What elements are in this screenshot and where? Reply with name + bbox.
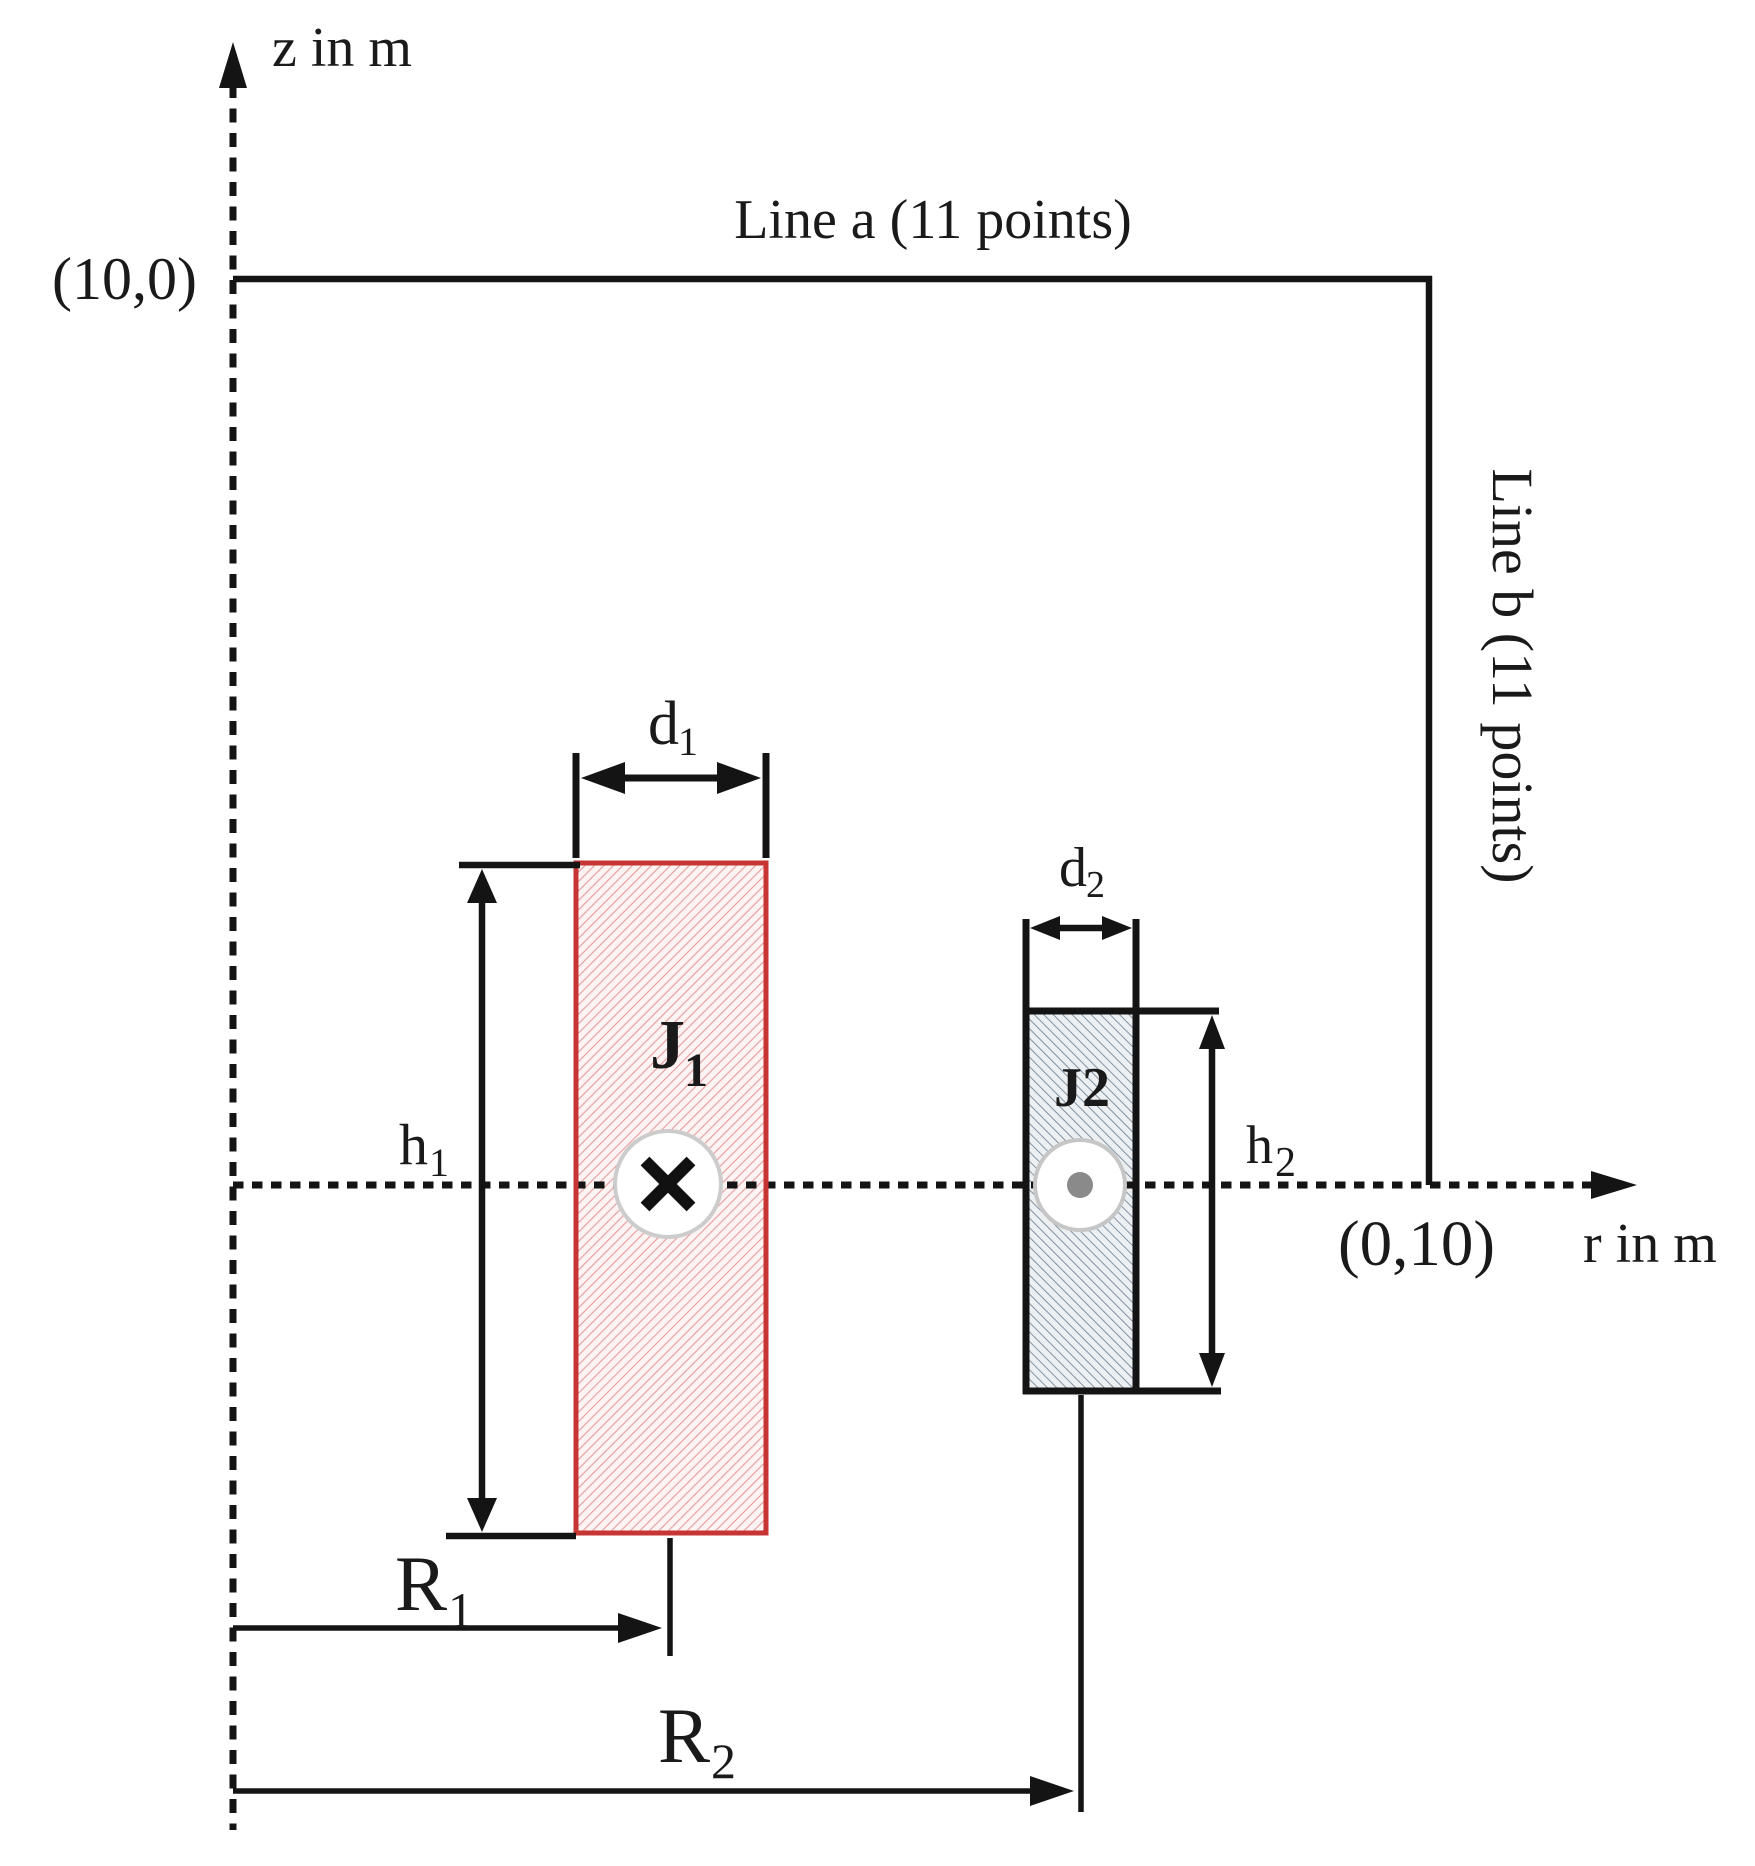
- svg-text:1: 1: [429, 1140, 449, 1185]
- svg-text:J: J: [650, 1007, 685, 1084]
- J2 current symbol (dot in circle): [1035, 1140, 1125, 1230]
- z axis dashed line: [230, 84, 237, 1830]
- J2 left border: [1023, 919, 1030, 1394]
- R1 dimension line with arrow: [233, 1625, 628, 1631]
- svg-text:d: d: [648, 690, 679, 758]
- svg-text:2: 2: [711, 1733, 736, 1789]
- svg-text:r in m: r in m: [1583, 1213, 1717, 1275]
- Line b: [1426, 276, 1433, 1185]
- h2 dimension arrow: [1209, 1040, 1216, 1362]
- svg-text:R: R: [395, 1540, 447, 1627]
- r axis dashed line: [233, 1182, 1592, 1189]
- J1 current symbol (cross in circle): [615, 1131, 721, 1237]
- svg-text:z in m: z in m: [272, 17, 412, 79]
- R2 dimension line with arrow: [233, 1788, 1040, 1794]
- svg-text:(10,0): (10,0): [52, 246, 197, 312]
- J2 hatch fill: [1030, 1014, 1133, 1388]
- Line a: [233, 276, 1432, 283]
- svg-text:1: 1: [448, 1582, 473, 1638]
- d1 left extension line: [573, 753, 580, 858]
- R2 extension line: [1078, 1395, 1084, 1812]
- svg-text:2: 2: [1275, 1140, 1296, 1186]
- h1 top bar: [459, 862, 580, 869]
- d1 right extension line: [763, 753, 770, 858]
- d2 dimension arrow: [1055, 925, 1107, 932]
- J2 / h2 bottom bar: [1023, 1388, 1221, 1395]
- svg-text:(0,10): (0,10): [1338, 1208, 1495, 1280]
- svg-text:d: d: [1059, 837, 1087, 899]
- h2 top bar: [1026, 1008, 1219, 1015]
- svg-text:1: 1: [684, 1044, 708, 1097]
- svg-text:2: 2: [1086, 864, 1105, 906]
- R1 extension line: [667, 1538, 673, 1656]
- svg-text:h: h: [399, 1112, 428, 1177]
- z axis arrowhead: [219, 42, 247, 88]
- J1 hatch fill: [579, 866, 764, 1531]
- svg-text:R: R: [658, 1692, 710, 1779]
- J1 hatched rectangle: [576, 863, 766, 1533]
- svg-text:Line b (11 points): Line b (11 points): [1480, 468, 1545, 883]
- d1 dimension arrow: [614, 775, 728, 782]
- h1 bottom bar: [446, 1533, 576, 1540]
- svg-text:h: h: [1246, 1115, 1273, 1175]
- svg-text:J2: J2: [1054, 1057, 1110, 1119]
- svg-text:1: 1: [678, 719, 698, 764]
- J2 right border: [1133, 919, 1140, 1394]
- h1 dimension arrow: [479, 895, 486, 1505]
- svg-text:Line a (11 points): Line a (11 points): [734, 189, 1132, 251]
- r axis arrowhead: [1591, 1171, 1637, 1199]
